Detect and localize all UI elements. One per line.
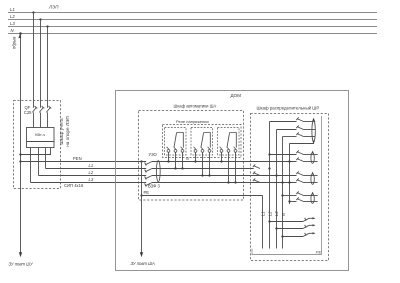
svg-text:L2: L2 <box>267 211 272 216</box>
node Шкаф учёта rotated label <box>59 116 70 147</box>
breaker 3phase group line L1 <box>270 117 316 121</box>
breaker 3phase group line L3 <box>283 132 316 136</box>
junction 1ph group 3 N tap <box>288 200 290 202</box>
arrow обрыв break indicator <box>18 34 21 38</box>
wire PEN riser to ground <box>20 34 22 253</box>
switch ШР entry blade L3 <box>253 178 260 182</box>
1ph group 3 linkage oval <box>311 194 314 204</box>
enclosure Шкаф автоматики ША dashed box <box>139 111 244 201</box>
arrow 3phase bottom <box>312 141 315 144</box>
svg-text:КВт-ч: КВт-ч <box>35 132 45 137</box>
wire N overhead line <box>8 33 377 35</box>
enclosure Шкаф распределительный ШР dashed box <box>251 114 329 261</box>
branch circuit 1 <box>270 218 313 222</box>
svg-text:УЗО: УЗО <box>149 152 158 157</box>
svg-text:PE: PE <box>144 190 150 195</box>
svg-text:на опоре ЛЭП: на опоре ЛЭП <box>65 116 70 147</box>
enclosure ШР inner solid panel <box>252 116 322 255</box>
junction N wire to bus <box>288 160 290 162</box>
bus L2 vertical <box>276 130 278 249</box>
wire L2 overhead line <box>8 19 377 21</box>
wire L2 drop <box>40 20 42 108</box>
wire L1 drop <box>33 13 35 108</box>
bus N vertical <box>289 144 291 205</box>
junction PEN jog <box>19 153 21 155</box>
wire meter PEN output jog <box>21 148 51 155</box>
junction L3 tap <box>46 25 48 27</box>
svg-text:PEN: PEN <box>73 156 82 161</box>
svg-text:Шкаф автоматики ША: Шкаф автоматики ША <box>174 104 217 109</box>
1ph group 2 linkage oval <box>311 174 314 185</box>
wire PE horizontal <box>142 195 263 197</box>
arrow branch 1 <box>313 217 316 219</box>
wire meter L3 output <box>30 148 32 183</box>
svg-text:L2: L2 <box>89 170 94 175</box>
1ph group 2 N line <box>296 178 317 182</box>
branch circuit 2 <box>277 225 313 229</box>
wire L3 after УЗО <box>152 182 297 184</box>
wire relay K1 terminals <box>169 152 183 168</box>
wire L1 horizontal <box>46 168 147 170</box>
junction PEN wire start <box>19 160 21 162</box>
wire relay K3 terminals <box>222 152 236 182</box>
ground electrode ЗУ повт ША <box>140 252 143 257</box>
wire L3 drop <box>47 27 49 108</box>
svg-text:L3: L3 <box>274 211 279 216</box>
1ph group 1 N line <box>296 157 317 161</box>
svg-text:ЛЭП: ЛЭП <box>48 5 59 10</box>
relay K3 box <box>218 128 240 156</box>
svg-text:Шкаф учета: Шкаф учета <box>59 118 64 145</box>
junction N tap <box>19 32 22 35</box>
arrow 1ph group 1 <box>311 151 313 154</box>
enclosure ДОМ solid box <box>116 91 349 271</box>
junction branch 3 tap <box>281 235 283 237</box>
junction branch 2 tap <box>275 227 277 229</box>
wire L2 horizontal <box>39 175 147 177</box>
junction PE corner <box>140 194 142 196</box>
svg-text:обрыв: обрыв <box>11 36 16 49</box>
1ph group 3 N line <box>290 197 318 201</box>
svg-text:Реле напряжения: Реле напряжения <box>176 119 209 124</box>
arrow branch 2 <box>313 224 316 226</box>
arrow 1ph group 2 <box>311 172 313 175</box>
junction 1ph group 1 L tap <box>268 153 270 155</box>
wire meter L2 output <box>38 148 40 176</box>
svg-text:ВЗФ 3: ВЗФ 3 <box>148 184 160 189</box>
wire L2 after УЗО <box>152 175 297 177</box>
bus PE vertical <box>262 196 264 249</box>
breaker 3phase linkage oval <box>312 121 315 142</box>
svg-text:ЗУ повт ШУ: ЗУ повт ШУ <box>9 261 34 266</box>
junction L1 wire to bus <box>268 167 270 169</box>
arrow 1ph group 3 <box>311 192 313 195</box>
svg-text:L2: L2 <box>10 14 15 19</box>
svg-text:Шкаф распределительный ШР: Шкаф распределительный ШР <box>257 106 320 111</box>
svg-text:L1: L1 <box>89 163 94 168</box>
breaker 3phase group line L2 <box>277 125 316 129</box>
junction 1ph group 3 L tap <box>281 194 283 196</box>
1ph group 1 L line <box>270 150 318 154</box>
switch ШР entry blade L1 <box>253 164 260 168</box>
breaker QF pole 3 <box>46 106 51 127</box>
junction L3 line crosses N bus <box>288 181 290 183</box>
svg-text:L1: L1 <box>10 7 15 12</box>
relay K1 box <box>165 128 187 156</box>
branch circuit 3 <box>283 233 313 237</box>
svg-text:ЗУ повт ША: ЗУ повт ША <box>131 261 155 266</box>
svg-text:N: N <box>281 213 286 216</box>
wire L1 overhead line <box>8 12 377 14</box>
1ph group 3 L line <box>283 191 318 195</box>
svg-text:C25: C25 <box>24 110 32 115</box>
svg-text:СИП 4x16: СИП 4x16 <box>64 183 84 188</box>
rcd УЗО blades <box>145 162 152 187</box>
junction L3 wire to bus <box>281 181 283 183</box>
junction L2 tap <box>39 18 41 20</box>
wire meter L1 output <box>45 148 47 169</box>
svg-text:N: N <box>186 156 189 161</box>
bus L3 vertical <box>282 137 284 249</box>
ground electrode ЗУ повт ШУ <box>19 252 22 257</box>
arrow 3phase top <box>312 118 315 121</box>
wire L3 horizontal <box>31 182 147 184</box>
rcd УЗО linkage oval <box>156 161 160 182</box>
arrow branch 3 <box>313 232 316 234</box>
wire relay K2 terminals <box>196 152 210 175</box>
junction branch 1 tap <box>268 220 270 222</box>
svg-text:L1: L1 <box>261 211 266 216</box>
junction L2 wire to bus <box>275 174 277 176</box>
wire L3 overhead line <box>8 26 377 28</box>
svg-text:L3: L3 <box>89 177 94 182</box>
1ph group 1 linkage oval <box>311 153 314 164</box>
svg-text:PE: PE <box>316 249 322 254</box>
wire 3phase group N line <box>290 142 314 144</box>
switch ШР entry blade L2 <box>253 171 260 175</box>
wire N after УЗО <box>152 161 297 163</box>
svg-text:ДОМ: ДОМ <box>231 93 242 98</box>
wire PE drop <box>141 162 143 253</box>
relay K2 box <box>191 128 213 156</box>
svg-text:L3: L3 <box>10 21 15 26</box>
meter КВт-ч box <box>27 128 55 148</box>
breaker QF pole 2 <box>39 106 44 127</box>
junction PE tap on PEN <box>140 160 142 162</box>
wire L1 after УЗО <box>152 168 254 170</box>
enclosure Шкаф учёта на опоре ЛЭП dashed box <box>14 101 61 189</box>
relay enclosure Реле напряжения dashed box <box>163 125 242 158</box>
wire PEN horizontal <box>21 161 147 163</box>
junction L1 tap <box>32 11 34 13</box>
1ph group 2 L line <box>296 171 317 175</box>
breaker QF pole 1 <box>32 106 37 127</box>
bus L1 vertical <box>269 122 271 249</box>
